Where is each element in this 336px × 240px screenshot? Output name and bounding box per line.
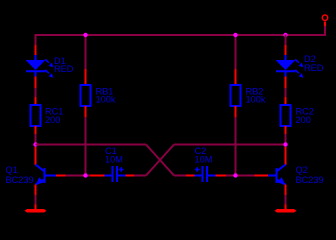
svg-text:BC239: BC239 (296, 175, 324, 185)
resistor RC2 200 (281, 97, 314, 134)
wire left rail top segment (35, 35, 37, 46)
wire top supply rail (35, 34, 327, 36)
svg-text:Q1: Q1 (6, 165, 18, 175)
node top rail RB1 (83, 33, 87, 37)
node Q1 collector (33, 142, 37, 146)
ground Q1 emitter (25, 205, 47, 213)
node Q1 base (83, 173, 87, 177)
wire right rail RC2 to node (285, 134, 287, 147)
resistor RB2 100k (231, 69, 266, 117)
ground Q2 emitter (275, 205, 297, 213)
node top rail right (283, 33, 287, 37)
node Q2 base (233, 173, 237, 177)
wire RB1 bottom lead (85, 117, 87, 176)
wire RB1 top lead (85, 35, 87, 70)
wire terminal drop (324, 26, 326, 36)
LED D2 (276, 45, 324, 88)
terminal +V (322, 15, 327, 26)
capacitor C2 10M (186, 146, 226, 182)
resistor RB1 100k (81, 69, 116, 117)
wire Q1 emitter to ground (35, 195, 37, 205)
wire diagonal lower-left to upper-right (146, 145, 174, 176)
resistor RC1 200 (31, 97, 64, 134)
wire RB2 bottom lead (235, 117, 237, 176)
svg-text:200: 200 (45, 115, 60, 125)
svg-text:RED: RED (304, 63, 324, 73)
wire Q2 emitter to ground (285, 195, 287, 205)
wire cross to C2 (174, 175, 186, 177)
node top rail RB2 (233, 33, 237, 37)
wire upper-right cross wire (174, 144, 286, 146)
wire left rail RC1 to node (35, 134, 37, 147)
wire right rail top segment (285, 35, 287, 46)
svg-text:10M: 10M (105, 154, 123, 164)
wire upper-left cross wire (36, 144, 147, 146)
wire left rail between D1 and RC1 (35, 88, 37, 97)
capacitor C1 10M (90, 146, 134, 182)
transistor Q1 BC239 (6, 147, 66, 195)
transistor Q2 BC239 (255, 147, 324, 195)
wire diagonal upper-left to lower-right (146, 145, 174, 176)
svg-text:10M: 10M (195, 154, 213, 164)
wire C1 to cross (134, 175, 146, 177)
wire Q1 base wire (66, 175, 91, 177)
wire C2 to Q2 base (226, 175, 255, 177)
svg-text:100k: 100k (246, 95, 266, 105)
svg-text:100k: 100k (96, 95, 116, 105)
svg-text:BC239: BC239 (6, 175, 34, 185)
svg-text:200: 200 (296, 115, 311, 125)
wire RB2 top lead (235, 35, 237, 70)
wire right rail between D2 and RC2 (285, 88, 287, 97)
svg-text:RED: RED (54, 64, 74, 74)
svg-text:Q2: Q2 (296, 165, 308, 175)
LED D1 (26, 45, 74, 88)
node Q2 collector (283, 142, 287, 146)
